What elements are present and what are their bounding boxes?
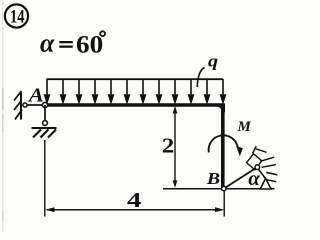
support pin circle	[255, 165, 260, 170]
lower pin circle	[43, 121, 48, 126]
vertical link below A	[44, 105, 46, 123]
beam from A to right corner	[45, 103, 225, 107]
wall hatching	[14, 91, 22, 120]
inclined support rod at B	[224, 167, 257, 188]
svg-text:4: 4	[127, 188, 142, 212]
support wall hatching whiskers	[253, 146, 278, 181]
wall pin circle	[23, 103, 27, 107]
svg-text:2: 2	[162, 134, 175, 158]
horizontal link wall to A	[25, 104, 45, 106]
svg-text:A: A	[27, 84, 44, 107]
label alpha = 60 degrees	[40, 29, 105, 59]
corner gusset	[216, 104, 226, 113]
pin joint A circle	[42, 102, 47, 107]
dimension 2 line with arrows	[173, 106, 178, 188]
scan artifacts at left edge	[2, 0, 4, 232]
svg-text:M: M	[237, 119, 252, 135]
q leader line	[197, 68, 204, 88]
dimension 4 line with arrows	[45, 207, 224, 212]
extension line below A support	[44, 140, 46, 217]
vertical member from corner down to B	[221, 104, 225, 187]
slider square at rod end	[247, 154, 262, 170]
extension line below B	[223, 191, 225, 217]
distributed load top line	[47, 78, 224, 80]
support triangle	[260, 178, 271, 189]
svg-text:60: 60	[76, 31, 103, 59]
svg-text:B: B	[206, 169, 220, 188]
ground hatching	[33, 130, 56, 138]
svg-text:α: α	[248, 166, 260, 190]
horizontal reference line at B level	[163, 188, 275, 190]
svg-text:14: 14	[10, 8, 25, 28]
svg-text:q: q	[208, 52, 218, 71]
svg-text:α: α	[40, 29, 55, 58]
problem number badge 14	[5, 4, 28, 27]
wall line at left support	[20, 93, 22, 120]
moment M arc arrow	[209, 135, 243, 156]
distributed load q arrows	[45, 79, 226, 102]
link from pin to triangle	[259, 170, 266, 179]
pin joint B circle	[222, 186, 226, 190]
ground line	[32, 127, 57, 129]
